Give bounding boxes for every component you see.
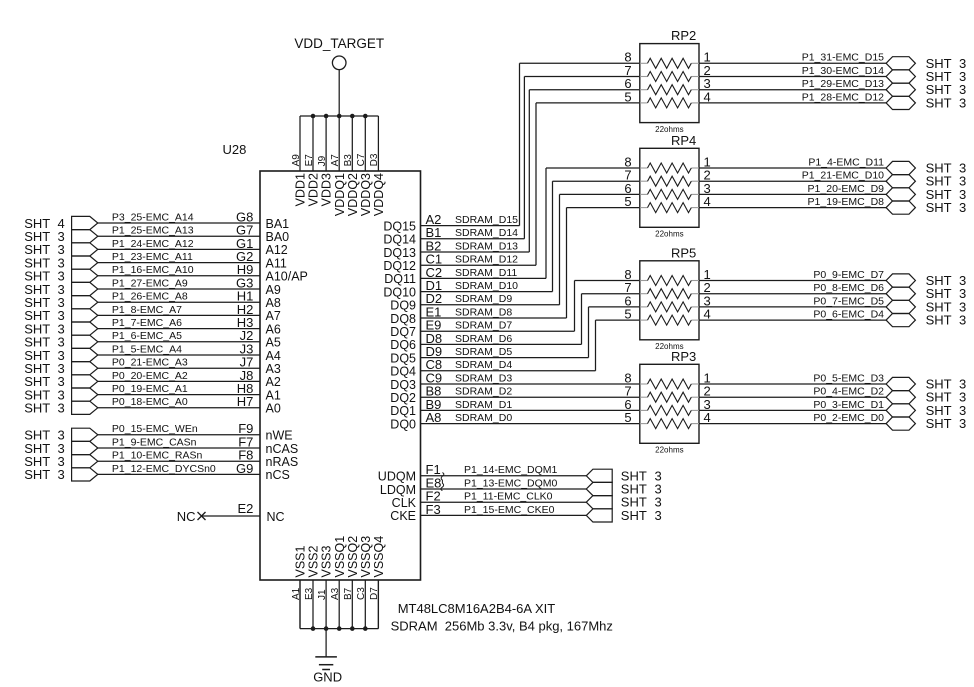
svg-text:D7: D7	[369, 587, 380, 600]
svg-text:P1_20-EMC_D9: P1_20-EMC_D9	[808, 183, 885, 195]
svg-text:A10/AP: A10/AP	[266, 270, 308, 284]
svg-text:P1_30-EMC_D14: P1_30-EMC_D14	[802, 65, 884, 77]
svg-text:SDRAM_D13: SDRAM_D13	[455, 240, 518, 252]
svg-text:SHT: SHT	[926, 95, 952, 110]
svg-text:J9: J9	[317, 155, 328, 166]
svg-text:SDRAM_D11: SDRAM_D11	[455, 267, 517, 279]
svg-text:DQ4: DQ4	[390, 365, 416, 379]
svg-text:SDRAM_D4: SDRAM_D4	[455, 359, 512, 371]
svg-text:A5: A5	[266, 336, 281, 350]
svg-text:SDRAM_D10: SDRAM_D10	[455, 280, 518, 292]
svg-text:P1_14-EMC_DQM1: P1_14-EMC_DQM1	[464, 464, 558, 476]
svg-text:LDQM: LDQM	[380, 483, 416, 497]
svg-text:DQ14: DQ14	[383, 233, 416, 247]
svg-text:SDRAM_D2: SDRAM_D2	[455, 386, 512, 398]
svg-text:P0_21-EMC_A3: P0_21-EMC_A3	[112, 357, 188, 369]
svg-text:P1_28-EMC_D12: P1_28-EMC_D12	[802, 91, 884, 103]
svg-text:VDDQ4: VDDQ4	[372, 173, 386, 216]
svg-text:P0_20-EMC_A2: P0_20-EMC_A2	[112, 370, 188, 382]
svg-text:P1_25-EMC_A13: P1_25-EMC_A13	[112, 225, 194, 237]
svg-text:VDD2: VDD2	[307, 173, 321, 206]
svg-text:A7: A7	[266, 309, 281, 323]
svg-text:UDQM: UDQM	[378, 470, 416, 484]
svg-text:F3: F3	[426, 502, 441, 517]
svg-text:P1_15-EMC_CKE0: P1_15-EMC_CKE0	[464, 504, 555, 516]
svg-text:P1_16-EMC_A10: P1_16-EMC_A10	[112, 264, 194, 276]
svg-text:A8: A8	[266, 296, 281, 310]
svg-text:DQ7: DQ7	[390, 325, 416, 339]
svg-text:P1_13-EMC_DQM0: P1_13-EMC_DQM0	[464, 477, 558, 489]
svg-text:P1_24-EMC_A12: P1_24-EMC_A12	[112, 238, 194, 250]
svg-text:VDD3: VDD3	[320, 173, 334, 206]
svg-text:P1_6-EMC_A5: P1_6-EMC_A5	[112, 330, 182, 342]
svg-text:nCAS: nCAS	[266, 442, 299, 456]
svg-text:SHT: SHT	[24, 467, 50, 482]
svg-text:VDDQ2: VDDQ2	[346, 173, 360, 216]
svg-text:H7: H7	[237, 394, 254, 409]
svg-text:VSSQ3: VSSQ3	[359, 536, 373, 578]
svg-text:P0_15-EMC_WEn: P0_15-EMC_WEn	[112, 423, 198, 435]
svg-text:SDRAM_D14: SDRAM_D14	[455, 227, 518, 239]
svg-text:22ohms: 22ohms	[655, 230, 683, 239]
svg-text:4: 4	[704, 194, 711, 209]
svg-text:5: 5	[624, 307, 631, 322]
svg-text:SDRAM_D1: SDRAM_D1	[455, 399, 512, 411]
svg-text:BA1: BA1	[266, 217, 290, 231]
svg-text:J1: J1	[317, 589, 328, 600]
svg-text:nWE: nWE	[266, 429, 293, 443]
svg-text:DQ5: DQ5	[390, 351, 416, 365]
svg-text:5: 5	[624, 194, 631, 209]
svg-text:nCS: nCS	[266, 468, 290, 482]
svg-text:SHT: SHT	[926, 200, 952, 215]
svg-text:3: 3	[959, 200, 966, 215]
svg-text:3: 3	[58, 467, 65, 482]
svg-text:3: 3	[58, 401, 65, 416]
svg-text:A11: A11	[266, 256, 287, 270]
svg-text:DQ13: DQ13	[383, 246, 416, 260]
svg-text:DQ11: DQ11	[384, 272, 416, 286]
svg-text:P0_4-EMC_D2: P0_4-EMC_D2	[813, 386, 884, 398]
svg-text:VSS2: VSS2	[307, 545, 321, 577]
svg-text:P1_19-EMC_D8: P1_19-EMC_D8	[808, 196, 885, 208]
svg-text:P1_9-EMC_CASn: P1_9-EMC_CASn	[112, 436, 197, 448]
svg-text:E2: E2	[237, 501, 253, 516]
svg-text:G9: G9	[236, 461, 253, 476]
svg-text:DQ15: DQ15	[383, 219, 416, 233]
svg-text:SDRAM_D15: SDRAM_D15	[455, 214, 518, 226]
svg-text:P0_5-EMC_D3: P0_5-EMC_D3	[813, 372, 884, 384]
svg-text:A3: A3	[330, 587, 341, 600]
svg-text:P1_4-EMC_D11: P1_4-EMC_D11	[808, 156, 884, 168]
svg-text:P1_26-EMC_A8: P1_26-EMC_A8	[112, 291, 188, 303]
svg-text:SHT: SHT	[24, 401, 50, 416]
svg-text:RP5: RP5	[671, 245, 696, 260]
svg-text:D3: D3	[369, 153, 380, 166]
svg-text:A9: A9	[266, 283, 281, 297]
svg-text:NC: NC	[177, 509, 196, 524]
svg-text:SDRAM 256Mb 3.3v, B4 pkg, 167: SDRAM 256Mb 3.3v, B4 pkg, 167Mhz	[391, 619, 613, 634]
svg-text:SHT: SHT	[621, 508, 647, 523]
svg-text:A7: A7	[330, 154, 341, 167]
svg-text:P0_2-EMC_D0: P0_2-EMC_D0	[813, 412, 884, 424]
svg-text:4: 4	[704, 410, 711, 425]
svg-text:P1_12-EMC_DYCSn0: P1_12-EMC_DYCSn0	[112, 463, 216, 475]
svg-text:nRAS: nRAS	[266, 455, 299, 469]
svg-text:5: 5	[624, 410, 631, 425]
svg-text:BA0: BA0	[266, 230, 290, 244]
svg-text:SDRAM_D3: SDRAM_D3	[455, 372, 512, 384]
svg-text:SHT: SHT	[926, 416, 952, 431]
svg-text:RP4: RP4	[671, 133, 696, 148]
svg-text:SDRAM_D0: SDRAM_D0	[455, 412, 512, 424]
svg-text:5: 5	[624, 89, 631, 104]
svg-text:P0_18-EMC_A0: P0_18-EMC_A0	[112, 396, 188, 408]
svg-text:NC: NC	[267, 510, 285, 524]
svg-text:A0: A0	[266, 402, 281, 416]
svg-text:P1_7-EMC_A6: P1_7-EMC_A6	[112, 317, 182, 329]
svg-text:VDD1: VDD1	[294, 173, 308, 206]
svg-text:SDRAM_D8: SDRAM_D8	[455, 306, 512, 318]
svg-text:DQ0: DQ0	[390, 417, 416, 431]
svg-text:P0_3-EMC_D1: P0_3-EMC_D1	[813, 399, 884, 411]
svg-text:P1_23-EMC_A11: P1_23-EMC_A11	[112, 251, 193, 263]
svg-text:P0_7-EMC_D5: P0_7-EMC_D5	[813, 295, 884, 307]
svg-text:P1_11-EMC_CLK0: P1_11-EMC_CLK0	[464, 491, 553, 503]
svg-text:P0_6-EMC_D4: P0_6-EMC_D4	[813, 309, 884, 321]
svg-text:RP2: RP2	[671, 28, 696, 43]
svg-text:MT48LC8M16A2B4-6A XIT: MT48LC8M16A2B4-6A XIT	[398, 601, 556, 616]
svg-text:DQ9: DQ9	[390, 299, 416, 313]
svg-text:VSSQ2: VSSQ2	[346, 536, 360, 578]
svg-text:VSSQ4: VSSQ4	[372, 536, 386, 578]
svg-text:3: 3	[655, 508, 662, 523]
svg-text:P1_21-EMC_D10: P1_21-EMC_D10	[802, 170, 884, 182]
svg-text:DQ2: DQ2	[390, 391, 416, 405]
svg-text:U28: U28	[223, 142, 247, 157]
svg-text:DQ3: DQ3	[390, 378, 416, 392]
svg-text:4: 4	[704, 307, 711, 322]
svg-text:E7: E7	[304, 154, 315, 167]
svg-text:CLK: CLK	[392, 496, 417, 510]
svg-text:E3: E3	[304, 587, 315, 600]
svg-text:P0_19-EMC_A1: P0_19-EMC_A1	[112, 383, 188, 395]
svg-text:DQ10: DQ10	[383, 285, 416, 299]
svg-text:SDRAM_D6: SDRAM_D6	[455, 333, 512, 345]
svg-text:SDRAM_D5: SDRAM_D5	[455, 346, 512, 358]
svg-text:VDD_TARGET: VDD_TARGET	[294, 36, 384, 51]
svg-text:P3_25-EMC_A14: P3_25-EMC_A14	[112, 211, 194, 223]
svg-text:3: 3	[959, 313, 966, 328]
svg-text:P1_10-EMC_RASn: P1_10-EMC_RASn	[112, 450, 203, 462]
svg-text:VDDQ3: VDDQ3	[359, 173, 373, 216]
svg-text:4: 4	[704, 89, 711, 104]
svg-text:22ohms: 22ohms	[655, 446, 683, 455]
svg-text:P0_8-EMC_D6: P0_8-EMC_D6	[813, 282, 884, 294]
svg-text:DQ1: DQ1	[390, 404, 416, 418]
svg-text:P1_29-EMC_D13: P1_29-EMC_D13	[802, 78, 884, 90]
svg-text:SDRAM_D9: SDRAM_D9	[455, 293, 512, 305]
svg-text:A6: A6	[266, 322, 281, 336]
svg-text:P1_27-EMC_A9: P1_27-EMC_A9	[112, 277, 188, 289]
svg-text:A9: A9	[291, 154, 302, 167]
svg-text:VSSQ1: VSSQ1	[333, 536, 347, 578]
svg-text:CKE: CKE	[390, 509, 416, 523]
svg-text:A1: A1	[291, 587, 302, 600]
svg-text:SDRAM_D7: SDRAM_D7	[455, 320, 512, 332]
svg-text:3: 3	[959, 416, 966, 431]
svg-text:SDRAM_D12: SDRAM_D12	[455, 254, 518, 266]
svg-text:A3: A3	[266, 362, 281, 376]
svg-text:B3: B3	[343, 154, 354, 167]
svg-text:A4: A4	[266, 349, 281, 363]
svg-text:P1_8-EMC_A7: P1_8-EMC_A7	[112, 304, 182, 316]
svg-text:P1_5-EMC_A4: P1_5-EMC_A4	[112, 343, 182, 355]
svg-text:P0_9-EMC_D7: P0_9-EMC_D7	[813, 269, 884, 281]
svg-text:B7: B7	[343, 587, 354, 600]
svg-text:C7: C7	[356, 153, 367, 166]
svg-text:RP3: RP3	[671, 349, 696, 364]
svg-text:A8: A8	[426, 410, 442, 425]
svg-text:GND: GND	[313, 670, 342, 685]
svg-text:DQ6: DQ6	[390, 338, 416, 352]
svg-text:DQ12: DQ12	[383, 259, 416, 273]
svg-text:3: 3	[959, 95, 966, 110]
svg-text:C3: C3	[356, 587, 367, 600]
svg-text:VSS3: VSS3	[320, 545, 334, 577]
svg-text:VDDQ1: VDDQ1	[333, 173, 347, 216]
svg-text:DQ8: DQ8	[390, 312, 416, 326]
svg-text:P1_31-EMC_D15: P1_31-EMC_D15	[802, 52, 884, 64]
svg-text:SHT: SHT	[926, 313, 952, 328]
svg-text:A2: A2	[266, 375, 281, 389]
svg-text:A12: A12	[266, 243, 288, 257]
svg-text:A1: A1	[266, 388, 281, 402]
svg-text:VSS1: VSS1	[294, 545, 308, 577]
